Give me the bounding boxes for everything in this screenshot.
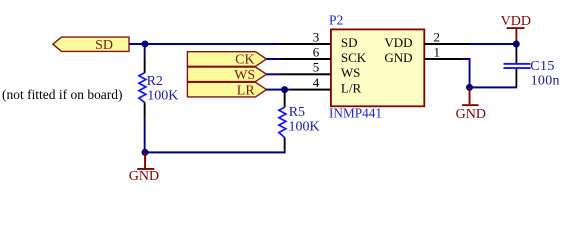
svg-text:SCK: SCK [341, 50, 367, 65]
svg-text:VDD: VDD [501, 14, 531, 29]
wire GND node to C15 [470, 86, 518, 88]
pin 4 L/R [291, 89, 331, 91]
pin number 5 [313, 60, 320, 75]
svg-text:INMP441: INMP441 [329, 106, 382, 121]
svg-text:(not fitted if on board): (not fitted if on board) [2, 88, 123, 103]
svg-text:GND: GND [456, 107, 486, 122]
capacitor C15 [504, 44, 531, 87]
svg-text:C15: C15 [530, 59, 554, 74]
svg-text:SD: SD [95, 38, 113, 53]
IC P2 body [331, 29, 424, 106]
wire CK to SCK pin [267, 58, 281, 60]
power port VDD [501, 14, 531, 44]
svg-text:CK: CK [235, 53, 254, 68]
designator R2 [147, 74, 163, 89]
svg-text:LR: LR [237, 83, 256, 98]
resistor R5 [279, 90, 286, 148]
junction node GND right [466, 84, 473, 91]
pin number 4 [313, 75, 320, 90]
pin 5 WS [281, 73, 331, 75]
svg-text:WS: WS [341, 65, 361, 80]
svg-text:1: 1 [434, 44, 441, 59]
pin number 2 [434, 29, 441, 44]
pin name L/R [341, 80, 362, 95]
svg-text:6: 6 [313, 44, 320, 59]
pin number 6 [313, 44, 320, 59]
svg-text:P2: P2 [329, 13, 343, 28]
svg-text:VDD: VDD [384, 35, 412, 50]
power port GND left [129, 152, 159, 184]
svg-text:5: 5 [313, 60, 320, 75]
wire SD net [129, 43, 279, 45]
svg-text:100K: 100K [147, 89, 178, 104]
port CK [187, 52, 266, 68]
value label 100n (C15) [531, 74, 560, 89]
svg-text:R2: R2 [147, 74, 163, 89]
pin name SD [341, 35, 358, 50]
resistor R2 [139, 58, 146, 117]
pin 1 GND [424, 58, 462, 60]
note text [2, 88, 123, 103]
wire pin2 to VDD node [469, 43, 517, 45]
pin number 3 [313, 29, 320, 44]
wire LR to L/R pin [267, 89, 291, 91]
designator C15 [530, 59, 554, 74]
wire pin1 to GND node [462, 58, 470, 87]
svg-text:100n: 100n [531, 74, 560, 89]
pin 6 SCK [280, 58, 331, 60]
designator R5 [289, 105, 305, 120]
pin 3 SD [279, 43, 331, 45]
junction node VDD/C15 [513, 41, 520, 48]
port LR [187, 82, 266, 98]
junction node SD/R2 [142, 41, 149, 48]
wire R2 to GND node [144, 117, 146, 153]
svg-text:3: 3 [313, 29, 320, 44]
pin name GND [384, 50, 412, 65]
pin 2 VDD [424, 43, 469, 45]
svg-text:GND: GND [129, 169, 159, 184]
port SD [53, 37, 129, 53]
power port GND right [456, 87, 486, 121]
svg-text:L/R: L/R [341, 80, 362, 95]
value label 100K (R2) [147, 89, 178, 104]
junction node GND left [142, 149, 149, 156]
wire GND rail bottom [145, 151, 285, 153]
svg-text:SD: SD [341, 35, 358, 50]
pin name SCK [341, 50, 367, 65]
junction node LR/R5 [281, 86, 288, 93]
svg-text:R5: R5 [289, 105, 305, 120]
svg-text:4: 4 [313, 75, 320, 90]
pin number 1 [434, 44, 441, 59]
svg-text:GND: GND [384, 50, 412, 65]
value label INMP441 [329, 106, 382, 121]
pin name VDD [384, 35, 412, 50]
pin name WS [341, 65, 361, 80]
value label 100K (R5) [289, 119, 320, 134]
wire R5 to GND rail [284, 148, 286, 153]
wire SD junction down to R2 [144, 44, 146, 58]
svg-text:WS: WS [234, 68, 255, 83]
port WS [187, 67, 266, 83]
wire WS to WS pin [267, 73, 282, 75]
svg-text:100K: 100K [289, 119, 320, 134]
svg-text:2: 2 [434, 29, 441, 44]
designator P2 [329, 13, 343, 28]
